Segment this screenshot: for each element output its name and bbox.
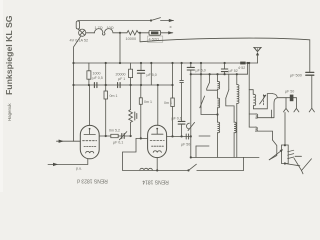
- node dot: [181, 135, 183, 137]
- capacitor C8 grid tube2: [178, 121, 185, 136]
- wire right end of switch rail: [247, 63, 249, 74]
- phone prong 1: [284, 98, 289, 112]
- wire bank horizontals: [199, 135, 210, 137]
- node dot: [119, 32, 121, 34]
- svg-text:10000: 10000: [126, 37, 137, 41]
- switch S1 blade: [187, 164, 243, 171]
- tube V1 RENS 1823d: [80, 125, 99, 164]
- HF choke Dr (boxed): [149, 30, 161, 35]
- wire to potentiometer: [284, 112, 286, 145]
- coil L3 stack: [218, 74, 220, 157]
- node dot: [88, 84, 90, 86]
- wire long top line to right edge: [140, 38, 310, 72]
- fuse F1: [76, 21, 79, 29]
- phone prong 2: [294, 98, 299, 112]
- svg-text:0m 1: 0m 1: [164, 101, 172, 105]
- wire lamp drop to tube1: [74, 36, 82, 141]
- node dot: [236, 73, 238, 75]
- wire jog down: [243, 157, 245, 170]
- svg-text:0m 5,2: 0m 5,2: [109, 129, 120, 133]
- capacitor C3 µF 52: [221, 63, 227, 74]
- coil L5: [234, 122, 236, 157]
- resistor R2: [87, 63, 91, 85]
- wire anode feed tube1: [89, 85, 91, 125]
- electrolytic C9: [187, 122, 195, 130]
- wire earth rail: [191, 156, 259, 158]
- switch blade top: [150, 18, 161, 22]
- terminal arrow B: [161, 31, 173, 34]
- wire bottom return: [123, 169, 189, 171]
- node dot: [190, 135, 192, 137]
- node dot: [130, 84, 132, 86]
- node dot: [105, 62, 107, 64]
- capacitor C4 (series on screen rail): [94, 83, 97, 88]
- wire screen rail: [74, 84, 173, 86]
- paper background: [0, 0, 320, 192]
- transformer T1 primary feed: [248, 63, 250, 127]
- node dot: [171, 135, 173, 137]
- node dot: [247, 62, 249, 64]
- node dot: [224, 73, 226, 75]
- resistor R4: [129, 63, 133, 85]
- capacitor C6 (small, beside zigzag): [135, 112, 137, 120]
- svg-text:µF 0,5: µF 0,5: [93, 76, 103, 80]
- wire lamp to choke: [86, 32, 94, 34]
- node dot: [156, 169, 158, 171]
- wire cathode drop x190: [190, 74, 192, 157]
- wire anode feed tube2: [157, 85, 159, 125]
- node dot: [224, 62, 226, 64]
- node dot: [72, 84, 74, 86]
- wire drop node to HT rail: [119, 33, 121, 63]
- node dot: [248, 62, 250, 64]
- resistor R3 with drop: [104, 63, 108, 136]
- lamp LA1: [79, 29, 86, 36]
- wire vertical x181: [180, 63, 184, 121]
- wire tap2 to pot left: [269, 140, 277, 160]
- node dot: [216, 73, 218, 75]
- svg-text:1,7Ω: 1,7Ω: [95, 26, 103, 30]
- wire: [140, 32, 149, 34]
- fuse F2 on HT rail: [240, 62, 245, 65]
- node dot: [209, 73, 211, 75]
- svg-text:RENS 1823 d: RENS 1823 d: [77, 177, 108, 183]
- svg-text:µF 52: µF 52: [229, 69, 238, 73]
- wire HT rail: [74, 62, 258, 64]
- terminal arrow grid input: [57, 140, 74, 143]
- terminal arrow A: [161, 19, 174, 22]
- node dot: [190, 62, 192, 64]
- node dot: [216, 113, 218, 115]
- wire phones bus: [271, 94, 296, 118]
- node dot: [105, 84, 107, 86]
- node dot: [140, 84, 142, 86]
- svg-text:µF 0,1: µF 0,1: [113, 141, 123, 145]
- node dot: [157, 84, 159, 86]
- capacitor C2 µF 5,0: [187, 63, 194, 74]
- svg-text:RENS 1814: RENS 1814: [142, 179, 169, 185]
- node dot: [139, 32, 141, 34]
- switch S4 blade: [226, 74, 234, 122]
- grid wire tube1: [99, 135, 111, 137]
- wire left bottom link: [123, 138, 148, 170]
- inductor L1 (mains choke, two humps): [94, 29, 120, 36]
- node dot: [190, 156, 192, 158]
- phone prong 3: [309, 108, 314, 112]
- node dot: [140, 137, 142, 139]
- node dot: [140, 62, 142, 64]
- terminal arrow pickup: [53, 163, 58, 166]
- node dot: [105, 135, 107, 137]
- capacitor C11 series: [186, 134, 188, 139]
- node dot: [200, 62, 202, 64]
- node dot: [171, 62, 173, 64]
- node dot: [171, 84, 173, 86]
- node dot: [181, 62, 183, 64]
- wire switch rail: [191, 73, 248, 75]
- resistor R8 0m1: [139, 85, 142, 138]
- resistor R7 zigzag vertical (grid leak): [129, 85, 133, 136]
- node dot: [130, 135, 132, 137]
- svg-text:µF 1: µF 1: [118, 77, 125, 81]
- resistor R1 zigzag: [127, 31, 140, 36]
- svg-text:µF 50: µF 50: [181, 143, 190, 147]
- capacitor C5 (series on screen rail): [118, 83, 121, 88]
- node dot: [119, 62, 121, 64]
- svg-text:µF 500: µF 500: [290, 74, 302, 78]
- wire cap to phone prong: [310, 75, 312, 108]
- tube V2 RENS 1814: [148, 125, 167, 157]
- node dot: [190, 73, 192, 75]
- wire pickup lead: [48, 163, 88, 165]
- svg-text:p.u.: p.u.: [76, 167, 82, 171]
- wire tube2 cathode drop: [156, 158, 158, 171]
- potentiometer P1: [269, 144, 294, 165]
- wire drop node to long line: [139, 33, 141, 42]
- switch S2 blade: [207, 74, 217, 90]
- phone transformer blob: [290, 95, 294, 102]
- switch S5 lever: [294, 156, 312, 174]
- resistor R5 grid stopper: [111, 134, 118, 137]
- antenna symbol: [254, 47, 261, 63]
- svg-text:0m 1: 0m 1: [144, 100, 152, 104]
- label box outline: [148, 36, 163, 42]
- svg-text:Hagenuk: Hagenuk: [7, 103, 12, 121]
- resistor R6: [171, 63, 175, 136]
- transformer tap 2: [249, 127, 272, 140]
- node dot: [200, 73, 202, 75]
- node dot: [150, 62, 152, 64]
- coil L4: [237, 74, 239, 157]
- svg-text:4·52: 4·52: [238, 66, 245, 70]
- capacitor C7 with arrow: [118, 132, 130, 140]
- svg-text:0m 1: 0m 1: [110, 94, 118, 98]
- capacitor C10 µF500: [306, 72, 314, 75]
- wire: [196, 145, 209, 147]
- svg-text:×: ×: [169, 24, 172, 29]
- coil L2 (three bumps): [140, 168, 153, 170]
- wire cathode link: [167, 135, 191, 137]
- svg-text:µF 50: µF 50: [285, 90, 294, 94]
- wire: [120, 32, 127, 34]
- node dot: [72, 62, 74, 64]
- wire top rail: [78, 20, 151, 22]
- transformer tap 1: [249, 110, 271, 118]
- switch S3 blade: [200, 63, 218, 115]
- capacitor C1 µF 5,0: [137, 63, 144, 85]
- transformer T1 (variometer): [249, 90, 272, 109]
- svg-text:Funkspiegel KL SG: Funkspiegel KL SG: [4, 15, 14, 95]
- wire pot bottom: [285, 164, 300, 166]
- wire fuse to lamp: [78, 29, 80, 30]
- svg-text:10Ω: 10Ω: [107, 26, 114, 30]
- svg-text:µF 0,1: µF 0,1: [172, 117, 182, 121]
- wire vertical x151: [150, 63, 152, 85]
